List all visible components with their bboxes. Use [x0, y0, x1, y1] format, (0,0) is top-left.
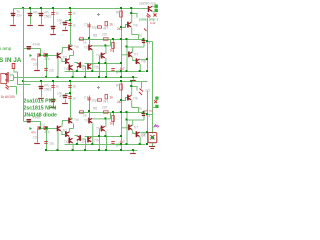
magenta mark [154, 125, 160, 128]
wire [13, 9, 15, 25]
input jack J1 [1, 74, 7, 84]
ch2 top right marks [141, 82, 143, 89]
channel 1 [22, 7, 150, 81]
power transistor T1 top right [148, 8, 149, 10]
svg-text:47u: 47u [33, 11, 39, 15]
svg-text:0.5: 0.5 [146, 89, 151, 93]
ground [10, 25, 16, 27]
svg-text:2sd560 npn: 2sd560 npn [139, 2, 156, 6]
output column x147 ch1 [147, 18, 149, 72]
svg-text:2sc1815 NPN: 2sc1815 NPN [24, 106, 57, 112]
ground [27, 25, 33, 27]
input resistor R11 [13, 63, 15, 64]
grey origin cross ch2 [97, 86, 100, 89]
ch2 output pads X2 [153, 107, 156, 109]
jack shield marks [6, 85, 10, 90]
svg-text:JN4148 diode: JN4148 diode [24, 113, 58, 119]
ch2 output column [147, 91, 149, 145]
T1 emitter resistor diagonal [147, 14, 151, 18]
svg-text:sp1: sp1 [141, 134, 146, 138]
capacitor C1 [11, 13, 16, 15]
supply pads X1 [155, 5, 158, 8]
svg-text:2sa1015 PNP: 2sa1015 PNP [24, 99, 57, 105]
junction [29, 7, 31, 9]
red X marks [154, 14, 157, 17]
svg-text:25v: 25v [17, 14, 23, 18]
svg-text:spk out: spk out [144, 109, 154, 113]
channel 2 [22, 80, 150, 154]
grey origin cross ch1 [97, 13, 100, 16]
ground [149, 146, 155, 148]
ch1 rail left extension [14, 8, 24, 10]
svg-text:S IN JA: S IN JA [0, 57, 22, 64]
svg-text:o amp: o amp [0, 46, 12, 51]
svg-text:1k AV100: 1k AV100 [1, 95, 15, 99]
wire [152, 143, 154, 146]
wire to output line [148, 41, 153, 43]
supply link x23 between channels [23, 49, 25, 82]
wire [30, 9, 32, 25]
output line x152 [152, 42, 154, 134]
speaker SP1 [148, 133, 157, 143]
svg-text:0.22: 0.22 [150, 21, 156, 25]
capacitor C2 [28, 13, 33, 15]
